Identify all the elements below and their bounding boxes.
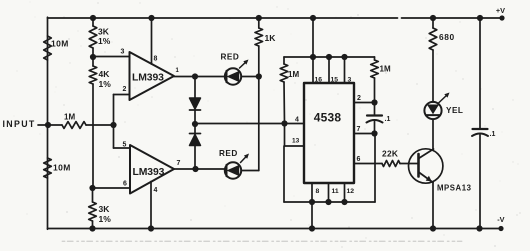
- resistor 1M input: [48, 113, 114, 129]
- transistor Q1 MPSA13: [409, 149, 472, 193]
- svg-text:6: 6: [357, 156, 361, 163]
- diode D1: [190, 77, 201, 125]
- diode D2: [190, 124, 201, 169]
- op-amp U1b LM393: [130, 145, 174, 194]
- svg-text:2: 2: [123, 86, 127, 93]
- wire collector up: [432, 120, 434, 151]
- svg-text:LM393: LM393: [133, 167, 165, 178]
- svg-text:RED: RED: [221, 53, 240, 62]
- resistor 1K: [255, 15, 276, 77]
- IC U2 4538: [304, 83, 354, 183]
- svg-text:8: 8: [154, 56, 158, 63]
- svg-text:1%: 1%: [98, 36, 111, 46]
- wire cap C1 to bus: [374, 134, 376, 203]
- wire U1a output: [174, 68, 225, 77]
- svg-text:2: 2: [357, 95, 361, 102]
- svg-text:8: 8: [316, 188, 320, 195]
- wire pin13: [285, 124, 305, 147]
- wire 4K to pin6: [89, 84, 95, 191]
- svg-text:12: 12: [347, 188, 355, 195]
- resistor 1M left: [280, 57, 299, 124]
- wire pin13 down to bus: [283, 146, 285, 202]
- wire top +V rail: [48, 17, 503, 19]
- wire U1a pin8 to +V: [148, 15, 157, 64]
- wire pin6 stub: [93, 181, 131, 189]
- wire -V bus under 4538: [284, 199, 375, 205]
- LED red upper: [221, 53, 242, 85]
- wire 680 to LED: [432, 50, 434, 102]
- svg-text:LM393: LM393: [132, 73, 164, 84]
- svg-text:-V: -V: [497, 215, 504, 224]
- wire 1K branch down: [258, 77, 260, 171]
- arrow red lower: [241, 154, 250, 163]
- svg-text:3K: 3K: [99, 204, 111, 214]
- node +V terminal: [496, 6, 505, 21]
- resistor 680: [429, 15, 455, 50]
- svg-text:1K: 1K: [265, 33, 277, 43]
- wire bottom -V rail: [48, 228, 502, 230]
- svg-text:1M: 1M: [380, 65, 391, 74]
- op-amp U1a LM393: [130, 52, 175, 100]
- svg-text:1%: 1%: [99, 214, 112, 224]
- svg-text:YEL: YEL: [446, 106, 463, 115]
- wire pin2 stub: [114, 86, 130, 95]
- svg-text:4538: 4538: [314, 111, 342, 125]
- svg-text:13: 13: [292, 138, 300, 145]
- wire base: [400, 163, 417, 165]
- resistor 22K: [382, 149, 400, 167]
- svg-text:4: 4: [154, 187, 158, 194]
- wire pin4: [285, 123, 305, 125]
- svg-text:4K: 4K: [99, 69, 111, 79]
- wire pin16 stub: [313, 57, 322, 84]
- wire pin5 stub: [114, 142, 131, 149]
- node D1 anode: [192, 73, 198, 79]
- wire 4538 V+ bus: [284, 15, 375, 60]
- wire pin3 stub: [93, 49, 130, 57]
- LED red lower: [219, 149, 241, 179]
- wire pin15 stub: [329, 57, 338, 84]
- wire bus to -V rail: [309, 202, 315, 232]
- wire pin8 stub: [312, 183, 320, 202]
- node pin2: [357, 95, 378, 106]
- svg-text:7: 7: [357, 126, 361, 133]
- wire LED2 to 1K branch: [241, 170, 259, 172]
- resistor 10M upper: [44, 36, 69, 60]
- wire pin11 stub: [329, 183, 339, 202]
- capacitor C2 .1: [472, 129, 495, 229]
- svg-text:3: 3: [121, 49, 125, 56]
- resistor 4K (1%): [89, 57, 111, 89]
- svg-text:.1: .1: [385, 116, 391, 123]
- resistor 1M right: [371, 57, 391, 103]
- node pin4: [281, 117, 299, 127]
- node D2 anode: [192, 166, 198, 172]
- svg-text:7: 7: [177, 160, 181, 167]
- svg-text:1M: 1M: [288, 70, 299, 79]
- svg-text:10M: 10M: [51, 39, 69, 49]
- node INPUT: [3, 119, 52, 129]
- wire U1b output: [174, 160, 225, 169]
- svg-text:10M: 10M: [53, 163, 71, 173]
- resistor 10M lower: [44, 158, 71, 178]
- wire pin6: [354, 156, 382, 164]
- svg-text:6: 6: [123, 181, 127, 188]
- svg-text:1%: 1%: [99, 79, 112, 89]
- arrow yellow LED: [439, 93, 450, 104]
- svg-text:MPSA13: MPSA13: [437, 184, 472, 193]
- capacitor C1 .1: [367, 103, 391, 134]
- wire input node vertical: [110, 95, 116, 149]
- svg-text:RED: RED: [219, 149, 238, 158]
- wire diode node to 4538 pin4: [195, 123, 285, 125]
- wire pin2: [354, 102, 375, 104]
- wire LED1 to 1K: [241, 73, 262, 79]
- wire left rail: [47, 17, 49, 229]
- svg-text:680: 680: [439, 32, 455, 42]
- svg-text:.1: .1: [490, 131, 496, 138]
- svg-text:22K: 22K: [382, 149, 398, 159]
- wire pin3 stub 4538: [345, 57, 352, 84]
- svg-text:1M: 1M: [64, 113, 75, 122]
- wire pin12 stub: [345, 183, 355, 202]
- wire pin7: [354, 133, 375, 135]
- wire U1b pin4 to -V: [148, 182, 158, 232]
- node pin7: [357, 126, 378, 137]
- wire emitter down: [430, 183, 436, 232]
- node cap bottom: [476, 225, 482, 231]
- svg-text:3K: 3K: [98, 27, 110, 37]
- svg-text:+V: +V: [496, 6, 505, 15]
- arrow red upper: [240, 60, 249, 69]
- LED yellow: [424, 102, 463, 119]
- resistor 3K lower (1%): [89, 188, 112, 232]
- svg-text:5: 5: [123, 142, 127, 149]
- svg-text:INPUT: INPUT: [3, 119, 36, 129]
- resistor 3K upper (1%): [89, 15, 111, 60]
- wire cap branch top: [477, 15, 483, 129]
- node diode junction: [192, 121, 198, 127]
- svg-text:4: 4: [295, 117, 299, 124]
- svg-text:11: 11: [332, 188, 339, 195]
- node -V terminal: [497, 215, 504, 231]
